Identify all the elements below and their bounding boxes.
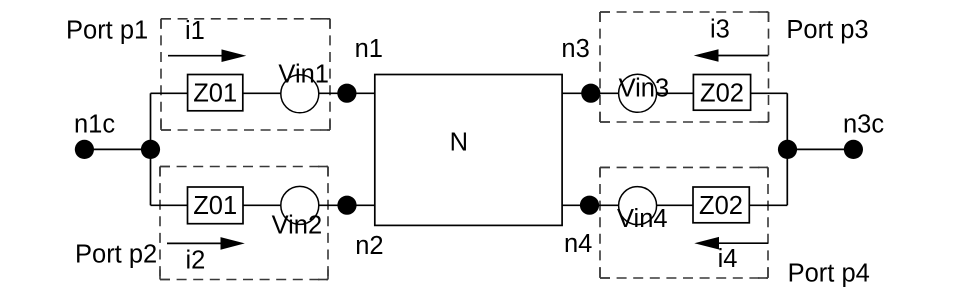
svg-text:Vin1: Vin1	[278, 61, 329, 89]
wire right rail vertical	[786, 93, 788, 205]
wire Vin2 to node n2	[319, 204, 375, 206]
node n1c terminal dot	[75, 140, 94, 159]
port p4 dashed boundary	[600, 167, 768, 278]
impedance Z02 (port p3)	[693, 75, 750, 111]
svg-text:i3: i3	[710, 15, 730, 43]
svg-text:N: N	[450, 129, 468, 157]
current arrow i4	[694, 237, 768, 250]
wire Vin3 to Z02	[657, 92, 694, 94]
svg-text:i1: i1	[185, 17, 205, 45]
svg-text:Vin3: Vin3	[619, 74, 670, 102]
svg-text:i2: i2	[186, 247, 206, 275]
current arrow i2	[167, 237, 245, 250]
voltage source Vin1	[281, 75, 319, 113]
port p2 dashed boundary	[160, 167, 328, 280]
voltage source Vin2	[281, 186, 319, 224]
svg-text:Z01: Z01	[193, 192, 237, 220]
svg-text:n4: n4	[564, 230, 592, 258]
current arrow i3	[694, 49, 769, 62]
svg-text:Vin4: Vin4	[617, 205, 668, 233]
svg-text:Port p1: Port p1	[66, 16, 148, 44]
svg-text:Z01: Z01	[193, 80, 237, 108]
svg-text:Z02: Z02	[700, 79, 744, 107]
wire Z02 to right rail	[749, 204, 787, 206]
port p1 dashed boundary	[161, 19, 330, 130]
current arrow i1	[168, 49, 246, 62]
voltage source Vin4	[619, 187, 657, 225]
wire Vin1 to node n1	[319, 92, 375, 94]
impedance Z01 (port p1)	[188, 75, 243, 111]
wire n3c stub	[787, 148, 853, 150]
svg-text:i4: i4	[718, 245, 738, 273]
wire left rail to Z01 top	[151, 92, 188, 94]
wire Vin4 to Z02	[657, 204, 693, 206]
node n4 junction dot	[580, 196, 599, 215]
svg-text:Port p3: Port p3	[786, 16, 868, 44]
wire n1c stub	[84, 148, 151, 150]
svg-text:Z02: Z02	[699, 192, 743, 220]
port p3 dashed boundary	[600, 12, 769, 122]
node junction dot right rail	[778, 140, 797, 159]
svg-text:n2: n2	[355, 232, 383, 260]
wire left rail vertical	[150, 93, 152, 205]
node n1 junction dot	[337, 84, 356, 103]
wire Z01 to Vin1	[243, 92, 281, 94]
svg-text:n3c: n3c	[843, 111, 884, 139]
svg-text:n1: n1	[355, 35, 383, 63]
node junction dot left rail	[141, 140, 160, 159]
svg-text:Vin2: Vin2	[272, 212, 323, 240]
wire Z01 to Vin2	[243, 204, 281, 206]
node n3 junction dot	[581, 84, 600, 103]
wire left rail to Z01 bottom	[151, 204, 188, 206]
voltage source Vin3	[619, 74, 657, 112]
svg-text:n3: n3	[561, 35, 589, 63]
wire node n4 to Vin4	[562, 204, 619, 206]
svg-text:Port p2: Port p2	[75, 241, 157, 269]
node n3c terminal dot	[844, 140, 863, 159]
svg-text:Port p4: Port p4	[788, 260, 870, 288]
impedance Z02 (port p4)	[693, 187, 749, 223]
node n2 junction dot	[337, 196, 356, 215]
wire Z02 to right rail	[751, 92, 788, 94]
impedance Z01 (port p2)	[188, 187, 244, 224]
svg-text:n1c: n1c	[74, 111, 115, 139]
wire node n3 to Vin3	[562, 92, 619, 94]
two-port network N box	[375, 75, 562, 226]
